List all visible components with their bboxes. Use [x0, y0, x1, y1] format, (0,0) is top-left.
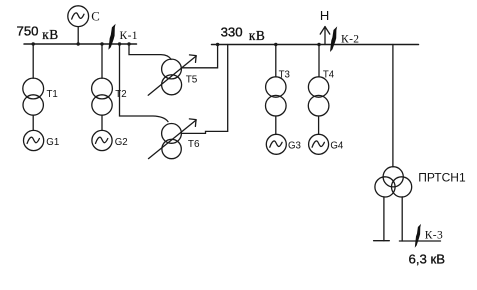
- wire: T6 secondary to 330 bus: [181, 45, 227, 134]
- node: T1 junction: [32, 42, 35, 45]
- svg-text:Т5: Т5: [186, 74, 198, 85]
- autotransformer T6: [149, 119, 197, 159]
- bus 750 kV: [24, 43, 137, 45]
- wire: T1 to G1: [32, 115, 34, 130]
- transformer T4: [308, 77, 329, 116]
- bus 330 kV: [212, 44, 419, 46]
- wire: T2 to G2: [101, 115, 103, 130]
- svg-text:С: С: [91, 9, 100, 23]
- node: T4 junction: [317, 43, 320, 46]
- svg-text:К-3: К-3: [425, 230, 443, 242]
- short-circuit K-1 bolt: [108, 24, 115, 50]
- node: C to bus junction: [77, 42, 80, 45]
- svg-text:Т6: Т6: [188, 139, 200, 150]
- node: T3 junction: [274, 43, 277, 46]
- transformer PRTSN1 (three-winding): [375, 167, 412, 197]
- short-circuit K-2 bolt: [330, 26, 337, 52]
- terminal bar right (6,3 kV): [399, 240, 440, 242]
- wire: T3 to G3: [275, 116, 277, 134]
- svg-text:К-2: К-2: [341, 33, 359, 45]
- svg-text:G4: G4: [330, 141, 344, 152]
- svg-text:750: 750: [17, 23, 39, 38]
- autotransformer T5: [148, 55, 196, 95]
- generator G2: [92, 130, 112, 150]
- svg-text:Т1: Т1: [47, 89, 58, 100]
- wire: bus to T5 (feeder): [129, 44, 171, 59]
- generator G3: [266, 134, 286, 154]
- wire: T5 secondary to 330 bus: [181, 45, 217, 68]
- svg-text:кВ: кВ: [42, 27, 58, 42]
- wire: bus to T4: [318, 45, 320, 77]
- transformer T1: [23, 78, 44, 115]
- wire: PRTSN1 left secondary: [383, 197, 385, 241]
- transformer T2: [92, 78, 113, 115]
- svg-text:330: 330: [221, 24, 243, 39]
- wire: bus to T3: [275, 45, 277, 77]
- generator G4: [309, 134, 329, 154]
- transformer T3: [266, 77, 287, 116]
- node: T6 feeder junction: [118, 42, 121, 45]
- wire: bus to T2: [101, 44, 103, 78]
- svg-text:6,3 кВ: 6,3 кВ: [409, 251, 446, 266]
- generator C (system source): [68, 6, 89, 44]
- label 750 кВ: [17, 23, 59, 41]
- svg-text:К-1: К-1: [120, 30, 138, 42]
- svg-text:Т2: Т2: [115, 89, 126, 100]
- svg-text:ПРТСН1: ПРТСН1: [418, 171, 466, 185]
- svg-text:кВ: кВ: [249, 28, 265, 43]
- svg-text:G3: G3: [288, 141, 301, 152]
- terminal bar left: [374, 240, 390, 242]
- svg-text:G2: G2: [115, 137, 128, 148]
- node: T5 riser junction: [216, 43, 219, 46]
- svg-text:G1: G1: [46, 137, 59, 148]
- wire: T4 to G4: [318, 116, 320, 134]
- wire: bus to T6 (feeder): [120, 44, 169, 122]
- node: T5 feeder junction: [127, 42, 130, 45]
- svg-text:Н: Н: [320, 8, 329, 23]
- load H arrow: [320, 27, 330, 45]
- short-circuit K-3 bolt: [415, 224, 421, 248]
- wire: bus to PRTSN1: [392, 45, 394, 167]
- wire: bus to T1: [32, 44, 34, 78]
- node: T2 junction: [100, 42, 103, 45]
- wire: PRTSN1 right secondary: [401, 197, 403, 241]
- label 330 кВ: [221, 24, 266, 43]
- svg-text:Т3: Т3: [279, 70, 290, 81]
- generator G1: [23, 130, 43, 150]
